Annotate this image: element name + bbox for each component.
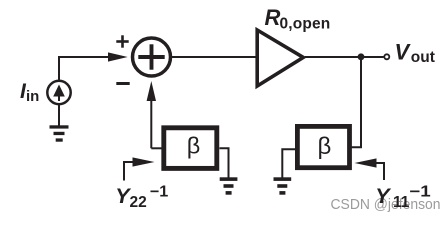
wire: right beta to ground: [282, 149, 295, 177]
minus sign (feedback input polarity): [116, 82, 129, 85]
arrowhead: input into summing node: [108, 52, 128, 61]
svg-text:β: β: [318, 133, 332, 160]
annotation arrow: Y11 pointing at right beta: [355, 158, 385, 180]
label Y_11^-1: [375, 184, 431, 211]
summing junction: [133, 38, 171, 76]
svg-text:11: 11: [393, 194, 410, 211]
svg-text:V: V: [395, 40, 412, 65]
label I_in: [20, 80, 39, 105]
svg-text:−1: −1: [150, 184, 169, 201]
wire: left beta input connector: [151, 147, 161, 149]
ground (input source): [50, 125, 69, 141]
wire: amplifier output to Vout terminal: [305, 56, 384, 58]
svg-text:Y: Y: [375, 184, 391, 208]
terminal: Vout open circle: [384, 54, 389, 59]
label Y_22^-1: [115, 184, 168, 211]
wire: feedback (left beta output up to summing node): [150, 99, 152, 148]
wire: output node down to right beta: [351, 57, 361, 147]
block: right beta (feedback network): [297, 126, 349, 167]
block: left beta (feedback network): [164, 128, 217, 169]
plus sign (summing input polarity): [116, 35, 128, 47]
svg-text:22: 22: [130, 194, 147, 211]
wire: left beta to ground: [220, 148, 229, 177]
svg-text:R: R: [265, 5, 281, 30]
annotation arrow: Y22 pointing at left beta: [124, 157, 155, 180]
label V_out: [395, 40, 435, 67]
arrowhead: feedback into summing node (up): [147, 81, 156, 101]
node: output junction dot: [358, 53, 365, 60]
wire: input source to summing node: [59, 57, 112, 81]
current source I1: [47, 81, 70, 104]
svg-text:0,open: 0,open: [280, 15, 331, 32]
svg-text:out: out: [411, 49, 435, 66]
wire: source to ground: [58, 104, 60, 126]
svg-text:β: β: [187, 132, 201, 158]
ground (left beta): [220, 177, 238, 194]
wire: summing node to amplifier: [172, 56, 256, 58]
svg-text:in: in: [26, 88, 39, 105]
svg-text:−1: −1: [409, 184, 431, 201]
label R_0,open: [265, 5, 331, 32]
op-amp A1 (open-loop amplifier triangle): [257, 30, 303, 86]
ground (right beta): [274, 177, 292, 194]
